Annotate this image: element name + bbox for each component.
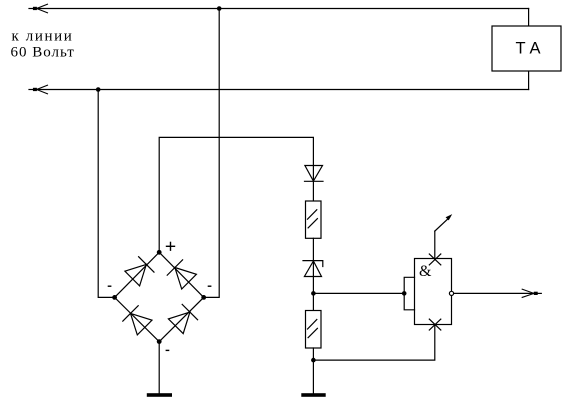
wire: from top junction down to bridge right node (204, 9, 220, 298)
ground: bridge ground bar (147, 393, 172, 397)
node: lower node dot (311, 358, 316, 363)
wire: TA box bottom drop to lower line (528, 71, 530, 90)
wire: top line (to 60V line, upper) (33, 8, 529, 10)
diode VD5 (bridge bottom-left, points to left node) (123, 306, 152, 335)
box TA: telephone set (492, 26, 561, 71)
bridge arm: top node to left node (115, 252, 160, 297)
op-amp/gate DD1: AND gate body (415, 259, 452, 325)
node: dot at gate input bracket (402, 291, 407, 296)
wire: lower line (to 60V line, lower) (33, 89, 529, 91)
node: bridge left node dot (112, 295, 117, 300)
ground: right ground bar (301, 393, 325, 397)
text: + at bridge top node (166, 242, 175, 251)
wire: bottom input lead down and left to lower node (313, 325, 434, 361)
wire: R2 to lower node (312, 348, 314, 360)
wire: middle node to gate input bracket (313, 292, 404, 294)
bridge arm: right node to bottom node (159, 297, 204, 341)
wire: gate output line (454, 292, 534, 294)
diode VD4 (bridge top-right, points to top node) (167, 260, 196, 289)
bridge arm: top node to right node (159, 252, 204, 297)
svg-text:&: & (419, 263, 432, 280)
arrow: open arrowhead left end of top line (29, 4, 48, 13)
svg-text:60 Вольт: 60 Вольт (11, 45, 75, 61)
wire: lower node to ground (312, 360, 314, 393)
arrow: open arrowhead at output (points right) (522, 289, 541, 297)
diode VD3 (bridge top-left, points to top node) (125, 257, 154, 286)
node: junction dot on top line (217, 6, 222, 11)
node: bridge bottom node dot (157, 339, 162, 344)
diode VD6 (bridge bottom-right, points to right node) (168, 304, 197, 333)
wire: top line right drop into TA box (528, 9, 530, 27)
arrow: open arrowhead left end of lower line (29, 85, 48, 94)
wire: from lower-line junction down to bridge left node (98, 90, 114, 298)
wire: bridge bottom node to ground (158, 342, 160, 394)
arrow: variability diagonal arrow (435, 214, 452, 231)
wire: middle node down to resistor R2 (312, 293, 314, 310)
wire: R1 to zener (312, 238, 314, 293)
bridge arm: left node to bottom node (115, 297, 160, 341)
text: - at bridge left node (108, 285, 112, 287)
node: bridge top node dot (157, 250, 162, 255)
text: - at bridge right node (208, 285, 212, 287)
gate input extension bracket (404, 277, 414, 310)
svg-text:к линии: к линии (12, 29, 74, 45)
output inversion circle (449, 291, 453, 295)
wire: from bridge top node up and right to diode chain (159, 137, 313, 252)
diode VD1 (top of chain, cathode down) (305, 166, 324, 182)
node: junction dot on lower line (96, 87, 101, 92)
gate bottom input X mark (429, 319, 441, 330)
zener diode VD2 (cathode bar up with hook) (303, 261, 323, 277)
resistor R2 (306, 311, 322, 349)
node: middle node dot (311, 291, 316, 296)
svg-text:ТА: ТА (516, 40, 546, 58)
gate top input X mark (429, 254, 441, 265)
node: bridge right node dot (201, 295, 206, 300)
wire: top input lead (434, 231, 436, 258)
resistor R1 (306, 201, 322, 238)
text: - at bridge bottom node (166, 349, 170, 351)
